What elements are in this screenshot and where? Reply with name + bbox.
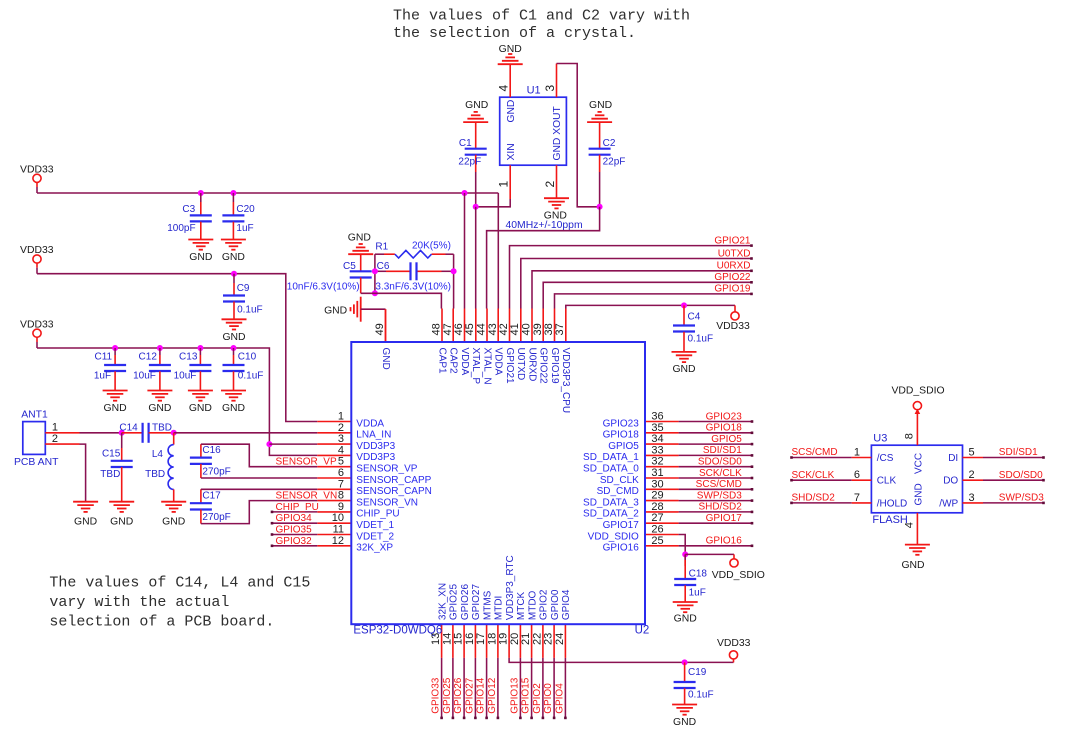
svg-text:28: 28 xyxy=(651,501,663,513)
svg-text:36: 36 xyxy=(651,411,663,423)
svg-text:C3: C3 xyxy=(182,204,195,215)
svg-text:GND: GND xyxy=(104,403,127,414)
svg-text:R1: R1 xyxy=(375,242,388,253)
svg-text:GPIO4: GPIO4 xyxy=(561,589,572,620)
svg-text:38: 38 xyxy=(543,323,555,335)
svg-text:2: 2 xyxy=(338,422,344,434)
wire net SCK/CLK at U3 xyxy=(790,479,871,482)
net label GPIO16 at U2 xyxy=(706,536,743,547)
svg-text:11: 11 xyxy=(333,524,344,536)
wire net GPIO19 xyxy=(555,293,753,309)
net label SHD/SD2 at U3 xyxy=(792,493,836,504)
node junction CAP1 net xyxy=(372,290,378,296)
capacitor C19 xyxy=(674,662,714,704)
net label SCS/CMD at U3 xyxy=(792,447,838,458)
capacitor C16 xyxy=(190,444,231,478)
svg-text:GPIO12: GPIO12 xyxy=(487,677,498,714)
svg-text:40: 40 xyxy=(521,323,533,335)
svg-text:35: 35 xyxy=(651,422,663,434)
svg-text:MTDI: MTDI xyxy=(494,596,505,620)
ground U3 xyxy=(901,545,929,571)
svg-text:47: 47 xyxy=(442,323,454,335)
svg-text:SWP/SD3: SWP/SD3 xyxy=(697,490,742,501)
wire net SDO/SD0 at U2 xyxy=(679,465,754,468)
svg-text:C12: C12 xyxy=(139,352,158,363)
svg-text:100pF: 100pF xyxy=(167,223,195,234)
svg-text:GPIO19: GPIO19 xyxy=(714,284,751,295)
ground C4 xyxy=(672,352,697,375)
svg-text:GND: GND xyxy=(222,332,245,343)
svg-text:GPIO35: GPIO35 xyxy=(276,525,313,536)
svg-text:XTAL_N: XTAL_N xyxy=(481,348,492,385)
note about C14 L4 C15 PCB selection xyxy=(49,575,310,631)
svg-text:GND: GND xyxy=(673,717,696,728)
wire R1 C6 left xyxy=(374,254,376,293)
svg-text:CHIP_PU: CHIP_PU xyxy=(276,502,319,513)
node junction C18 xyxy=(682,551,688,557)
wire net U0TXD xyxy=(521,257,753,308)
svg-text:0.1uF: 0.1uF xyxy=(688,690,714,701)
pin 2 stub U1 xyxy=(556,165,558,198)
svg-text:GPIO22: GPIO22 xyxy=(538,348,549,385)
svg-text:SHD/SD2: SHD/SD2 xyxy=(792,493,836,504)
svg-text:GPIO16: GPIO16 xyxy=(706,536,743,547)
svg-text:VDD3P3: VDD3P3 xyxy=(356,441,395,452)
svg-text:GND: GND xyxy=(913,483,924,505)
capacitor C10 xyxy=(223,348,264,391)
svg-text:SHD/SD2: SHD/SD2 xyxy=(698,502,742,513)
svg-text:XIN: XIN xyxy=(506,143,517,160)
svg-text:1uF: 1uF xyxy=(689,588,706,599)
svg-text:DO: DO xyxy=(943,476,958,487)
net label U0TXD xyxy=(718,248,751,259)
svg-text:VDDA: VDDA xyxy=(493,348,504,376)
power symbol VDD33 rail3 xyxy=(20,319,54,348)
svg-text:C18: C18 xyxy=(689,569,708,580)
wire net GPIO12 bottom xyxy=(497,658,500,719)
svg-text:39: 39 xyxy=(532,323,544,335)
svg-text:GPIO27: GPIO27 xyxy=(471,584,482,621)
antenna ANT1 xyxy=(14,410,59,469)
svg-text:GPIO25: GPIO25 xyxy=(442,677,453,714)
node junction rail1 pin46 xyxy=(462,190,468,196)
svg-text:1uF: 1uF xyxy=(94,371,111,382)
svg-text:SDI/SD1: SDI/SD1 xyxy=(999,447,1038,458)
svg-text:GND: GND xyxy=(189,252,212,263)
capacitor C15 xyxy=(100,433,132,502)
svg-text:10: 10 xyxy=(332,512,344,524)
label crystal frequency xyxy=(506,220,583,231)
svg-text:41: 41 xyxy=(509,323,521,335)
svg-text:/HOLD: /HOLD xyxy=(877,498,908,509)
net label GPIO5 at U2 xyxy=(711,434,742,445)
svg-text:21: 21 xyxy=(520,633,532,645)
svg-text:10nF/6.3V(10%): 10nF/6.3V(10%) xyxy=(287,282,360,293)
svg-text:0.1uF: 0.1uF xyxy=(238,371,264,382)
svg-text:GPIO17: GPIO17 xyxy=(603,520,640,531)
note about C1 C2 crystal selection xyxy=(393,8,690,42)
svg-text:20: 20 xyxy=(509,633,521,645)
svg-text:13: 13 xyxy=(430,633,442,645)
svg-text:22pF: 22pF xyxy=(458,157,481,168)
wire rail1 drop to pin46 xyxy=(464,193,466,309)
svg-text:CAP1: CAP1 xyxy=(436,348,447,375)
svg-text:C13: C13 xyxy=(179,352,198,363)
wire net GPIO32 xyxy=(271,545,318,548)
capacitor C18 xyxy=(674,554,707,602)
node junction rail3 C12 xyxy=(157,345,163,351)
svg-text:VCC: VCC xyxy=(913,453,924,474)
net label SWP/SD3 at U2 xyxy=(697,490,742,501)
inductor L4 xyxy=(145,433,174,502)
svg-text:C11: C11 xyxy=(94,352,112,363)
pin 8 stub U3 xyxy=(915,409,921,446)
svg-text:C15: C15 xyxy=(102,449,121,460)
svg-text:L4: L4 xyxy=(152,449,164,460)
wire net GPIO2 bottom xyxy=(542,658,545,719)
wire net GPIO35 xyxy=(271,533,318,536)
svg-text:C6: C6 xyxy=(377,261,390,272)
svg-text:SENSOR_VP: SENSOR_VP xyxy=(276,457,337,468)
svg-text:16: 16 xyxy=(464,633,476,645)
svg-text:C4: C4 xyxy=(688,312,701,323)
pin 4 stub U3 xyxy=(916,513,918,545)
net label SCS/CMD at U2 xyxy=(696,479,742,490)
svg-text:vary with the actual: vary with the actual xyxy=(49,594,229,611)
svg-text:GND: GND xyxy=(672,364,695,375)
pin stubs U2 bottom xyxy=(442,624,566,658)
wire pin49 xyxy=(361,309,386,342)
node junction C2 XTAL_N xyxy=(597,204,603,210)
node junction rail3 C11 xyxy=(112,345,118,351)
ground C12 xyxy=(147,391,172,415)
svg-text:GPIO2: GPIO2 xyxy=(539,589,550,620)
svg-text:6: 6 xyxy=(338,467,344,479)
net label GPIO33 xyxy=(431,677,442,714)
svg-text:1: 1 xyxy=(52,422,58,434)
svg-text:FLASH: FLASH xyxy=(872,514,908,526)
ground C1 xyxy=(463,100,488,122)
net label CHIP_PU xyxy=(276,502,319,513)
svg-text:VDDA: VDDA xyxy=(356,418,384,429)
ground ANT1 pin2 xyxy=(73,502,98,528)
svg-text:GPIO4: GPIO4 xyxy=(554,683,565,714)
svg-text:0.1uF: 0.1uF xyxy=(688,334,714,345)
svg-text:270pF: 270pF xyxy=(202,467,230,478)
wire net GPIO17 at U2 xyxy=(679,522,754,525)
wire net GPIO14 bottom xyxy=(485,658,488,719)
svg-text:14: 14 xyxy=(441,633,453,645)
net label SDO/SD0 at U2 xyxy=(698,457,742,468)
ground C20 xyxy=(221,240,246,264)
wire net GPIO15 bottom xyxy=(530,658,533,719)
svg-text:TBD: TBD xyxy=(152,423,172,434)
svg-text:33: 33 xyxy=(651,444,663,456)
net label GPIO13 xyxy=(509,677,520,714)
svg-text:SWP/SD3: SWP/SD3 xyxy=(999,493,1044,504)
svg-text:ANT1: ANT1 xyxy=(21,410,48,421)
node junction rail3 C10 xyxy=(231,345,237,351)
svg-text:3: 3 xyxy=(338,433,344,445)
svg-text:GND: GND xyxy=(324,305,347,316)
svg-text:VDET_1: VDET_1 xyxy=(356,520,394,531)
net label U0RXD xyxy=(717,261,751,272)
svg-text:GPIO32: GPIO32 xyxy=(276,536,313,547)
capacitor C3 xyxy=(167,193,212,240)
wire net GPIO21 xyxy=(510,244,753,308)
wire net CHIP_PU xyxy=(271,511,318,514)
ground U2 pin49 xyxy=(324,297,361,322)
node junction rail1 C20 xyxy=(230,190,236,196)
net label GPIO12 xyxy=(487,677,498,714)
wire net SDI/SD1 at U2 xyxy=(679,454,754,457)
svg-text:32K_XN: 32K_XN xyxy=(437,583,448,620)
svg-text:XTAL_P: XTAL_P xyxy=(470,348,481,385)
svg-text:2: 2 xyxy=(52,433,58,445)
svg-text:20K(5%): 20K(5%) xyxy=(412,240,451,251)
svg-text:VDD_SDIO: VDD_SDIO xyxy=(891,385,944,396)
svg-text:26: 26 xyxy=(651,524,663,536)
svg-text:GPIO17: GPIO17 xyxy=(706,513,743,524)
wire ANT1 pin2 to GND xyxy=(80,444,86,502)
node junction rail3 C13 xyxy=(197,345,203,351)
svg-text:GPIO34: GPIO34 xyxy=(276,513,313,524)
svg-text:SDO/SD0: SDO/SD0 xyxy=(999,470,1043,481)
net label GPIO4 xyxy=(554,683,565,714)
wire net GPIO16 at U2 xyxy=(679,545,754,548)
wire VDD_SDIO pin26 xyxy=(679,535,686,555)
pin stubs U2 top xyxy=(386,309,566,343)
ground C11 xyxy=(103,391,128,415)
svg-text:GPIO33: GPIO33 xyxy=(431,677,442,714)
wire net GPIO27 bottom xyxy=(474,658,477,719)
svg-text:GND: GND xyxy=(222,252,245,263)
svg-text:VDD33: VDD33 xyxy=(20,245,54,256)
svg-text:SCK/CLK: SCK/CLK xyxy=(699,468,742,479)
svg-text:GND: GND xyxy=(189,403,212,414)
svg-text:VDD_SDIO: VDD_SDIO xyxy=(712,570,765,581)
svg-text:GPIO26: GPIO26 xyxy=(460,584,471,621)
net label SDI/SD1 at U3 right xyxy=(999,447,1038,458)
power symbol VDD33 rail2 xyxy=(20,245,54,274)
svg-text:3.3nF/6.3V(10%): 3.3nF/6.3V(10%) xyxy=(375,282,451,293)
svg-text:SD_DATA_1: SD_DATA_1 xyxy=(583,452,639,463)
svg-text:GND: GND xyxy=(506,100,517,123)
ground C18 xyxy=(673,602,698,625)
wire C16 bottom to SENSOR_CAPP xyxy=(201,477,317,479)
svg-text:GPIO0: GPIO0 xyxy=(550,589,561,620)
svg-text:C16: C16 xyxy=(202,445,221,456)
ground C10 xyxy=(221,391,246,415)
flash chip U3 xyxy=(854,433,975,529)
svg-text:37: 37 xyxy=(554,323,566,335)
svg-text:VDD33: VDD33 xyxy=(717,638,751,649)
svg-text:270pF: 270pF xyxy=(202,512,230,523)
wire net SHD/SD2 at U3 xyxy=(790,502,871,505)
svg-text:SD_CMD: SD_CMD xyxy=(597,486,639,497)
wire net GPIO4 bottom xyxy=(564,658,567,719)
svg-text:4: 4 xyxy=(497,85,511,92)
svg-text:32: 32 xyxy=(651,456,663,468)
svg-text:SENSOR_CAPN: SENSOR_CAPN xyxy=(356,486,432,497)
svg-text:34: 34 xyxy=(651,433,663,445)
svg-text:SENSOR_VP: SENSOR_VP xyxy=(356,464,417,475)
svg-text:C19: C19 xyxy=(688,667,707,678)
svg-text:MTMS: MTMS xyxy=(482,590,493,620)
svg-text:8: 8 xyxy=(338,490,344,502)
svg-text:MTCK: MTCK xyxy=(516,591,527,620)
wire C16 top to SENSOR_VP xyxy=(201,444,317,467)
net label GPIO17 at U2 xyxy=(706,513,743,524)
wire net U0RXD xyxy=(532,270,753,309)
capacitor C20 xyxy=(222,193,255,240)
svg-text:VDD33: VDD33 xyxy=(20,319,54,330)
svg-text:3: 3 xyxy=(543,85,557,92)
wire VDD33 rail3 xyxy=(37,348,317,455)
power symbol VDD33 at pin37 xyxy=(716,305,750,332)
wire rail3 branch to pin3 xyxy=(269,443,317,445)
svg-text:GPIO23: GPIO23 xyxy=(706,411,743,422)
svg-text:GPIO21: GPIO21 xyxy=(504,348,515,385)
svg-text:10uF: 10uF xyxy=(174,371,197,382)
svg-text:GPIO25: GPIO25 xyxy=(449,584,460,621)
svg-text:SCS/CMD: SCS/CMD xyxy=(792,447,838,458)
net label GPIO19 xyxy=(714,284,751,295)
wire R1 C6 right to pin47 xyxy=(453,254,455,308)
ground C9 xyxy=(222,319,247,343)
wire net SCS/CMD at U2 xyxy=(679,488,754,491)
ground L4 xyxy=(161,502,186,528)
wire C5 to pin48 xyxy=(361,293,442,308)
svg-text:VDD3P3: VDD3P3 xyxy=(356,452,395,463)
svg-text:42: 42 xyxy=(498,323,510,335)
net label SENSOR_VP xyxy=(276,457,337,468)
node junction rail1 C3 xyxy=(198,190,204,196)
ground U1 pin4 xyxy=(498,44,523,64)
svg-text:GPIO5: GPIO5 xyxy=(608,441,639,452)
svg-text:The values of C14, L4 and C15: The values of C14, L4 and C15 xyxy=(49,575,310,592)
svg-text:U0TXD: U0TXD xyxy=(515,348,526,381)
wire net SCK/CLK at U2 xyxy=(679,477,754,480)
svg-text:4: 4 xyxy=(338,444,344,456)
ground C2 xyxy=(587,100,612,122)
wire C2 to pin44 xyxy=(487,207,600,309)
wire VDD3P3_RTC to VDD33 xyxy=(509,658,733,663)
svg-text:7: 7 xyxy=(338,478,344,490)
wire C1 to pin45 xyxy=(475,207,477,309)
svg-text:9: 9 xyxy=(338,501,344,513)
net label SHD/SD2 at U2 xyxy=(698,502,742,513)
ground C13 xyxy=(188,391,213,415)
svg-text:44: 44 xyxy=(476,323,488,335)
capacitor C12 xyxy=(133,348,171,391)
net label GPIO26 xyxy=(453,677,464,714)
power symbol VDD33 rail1 xyxy=(20,164,54,193)
wire net GPIO34 xyxy=(271,522,318,525)
svg-text:GND: GND xyxy=(110,517,133,528)
svg-text:15: 15 xyxy=(453,633,465,645)
capacitor C9 xyxy=(223,274,263,320)
wire VDD33 rail2 xyxy=(37,274,317,422)
net label GPIO32 xyxy=(276,536,313,547)
svg-text:CAP2: CAP2 xyxy=(448,348,459,375)
svg-text:TBD: TBD xyxy=(145,469,165,480)
svg-text:8: 8 xyxy=(904,433,916,439)
svg-text:VDDA: VDDA xyxy=(459,348,470,376)
svg-text:30: 30 xyxy=(651,478,663,490)
wire rail1 drop to pin43 xyxy=(497,193,499,309)
svg-text:GPIO2: GPIO2 xyxy=(532,683,543,714)
wire net SHD/SD2 at U2 xyxy=(679,511,754,514)
wire C14 to LNA_IN xyxy=(174,432,318,434)
node junction C4 xyxy=(681,302,687,308)
svg-text:SENSOR_VN: SENSOR_VN xyxy=(356,497,418,508)
wire C17 bottom to SENSOR_VN xyxy=(201,501,317,524)
power symbol VDD_SDIO at U3 xyxy=(891,385,944,410)
svg-text:the selection of a crystal.: the selection of a crystal. xyxy=(393,25,636,42)
svg-text:22: 22 xyxy=(531,633,543,645)
svg-text:GPIO14: GPIO14 xyxy=(476,677,487,714)
svg-text:VDD_SDIO: VDD_SDIO xyxy=(588,531,639,542)
net label SCK/CLK at U3 xyxy=(792,470,835,481)
node junction C14 right xyxy=(171,430,177,436)
svg-text:23: 23 xyxy=(543,633,555,645)
net label GPIO34 xyxy=(276,513,313,524)
pin stubs ANT1 xyxy=(45,433,79,444)
svg-text:C20: C20 xyxy=(236,204,255,215)
svg-text:18: 18 xyxy=(486,633,498,645)
svg-text:U0RXD: U0RXD xyxy=(717,261,751,272)
svg-text:CHIP_PU: CHIP_PU xyxy=(356,509,399,520)
svg-text:VDD3P3_RTC: VDD3P3_RTC xyxy=(505,555,516,620)
svg-text:C1: C1 xyxy=(459,138,472,149)
svg-text:12: 12 xyxy=(332,535,344,547)
svg-text:GND: GND xyxy=(148,403,171,414)
capacitor C11 xyxy=(94,348,126,391)
node junction C6 right xyxy=(451,268,457,274)
svg-text:40MHz+/-10ppm: 40MHz+/-10ppm xyxy=(506,220,583,231)
net label SDO/SD0 at U3 right xyxy=(999,470,1043,481)
svg-text:GPIO16: GPIO16 xyxy=(603,543,640,554)
svg-text:24: 24 xyxy=(554,633,566,645)
wire net GPIO5 at U2 xyxy=(679,443,754,446)
wire C17 top to SENSOR_CAPN xyxy=(201,488,317,490)
svg-text:U3: U3 xyxy=(873,433,887,445)
svg-text:U2: U2 xyxy=(635,625,650,637)
net label SDI/SD1 at U2 xyxy=(703,445,742,456)
svg-text:29: 29 xyxy=(651,490,663,502)
svg-text:31: 31 xyxy=(651,467,663,479)
svg-text:/CS: /CS xyxy=(877,453,894,464)
svg-text:46: 46 xyxy=(453,323,465,335)
wire VDD33 rail1 xyxy=(37,192,498,194)
svg-text:GPIO23: GPIO23 xyxy=(603,418,640,429)
capacitor C6 xyxy=(375,261,454,293)
svg-text:GPIO18: GPIO18 xyxy=(603,430,640,441)
svg-text:C5: C5 xyxy=(343,261,356,272)
svg-text:U1: U1 xyxy=(527,85,541,97)
net label GPIO22 xyxy=(714,272,751,283)
svg-text:27: 27 xyxy=(651,512,663,524)
net label GPIO2 xyxy=(532,683,543,714)
svg-text:GND: GND xyxy=(499,44,522,55)
svg-text:SENSOR_VN: SENSOR_VN xyxy=(276,491,338,502)
svg-text:VDD33: VDD33 xyxy=(20,164,54,175)
svg-text:22pF: 22pF xyxy=(603,157,626,168)
svg-text:GPIO27: GPIO27 xyxy=(464,677,475,714)
svg-text:GPIO13: GPIO13 xyxy=(509,677,520,714)
ground C15 xyxy=(109,502,134,528)
